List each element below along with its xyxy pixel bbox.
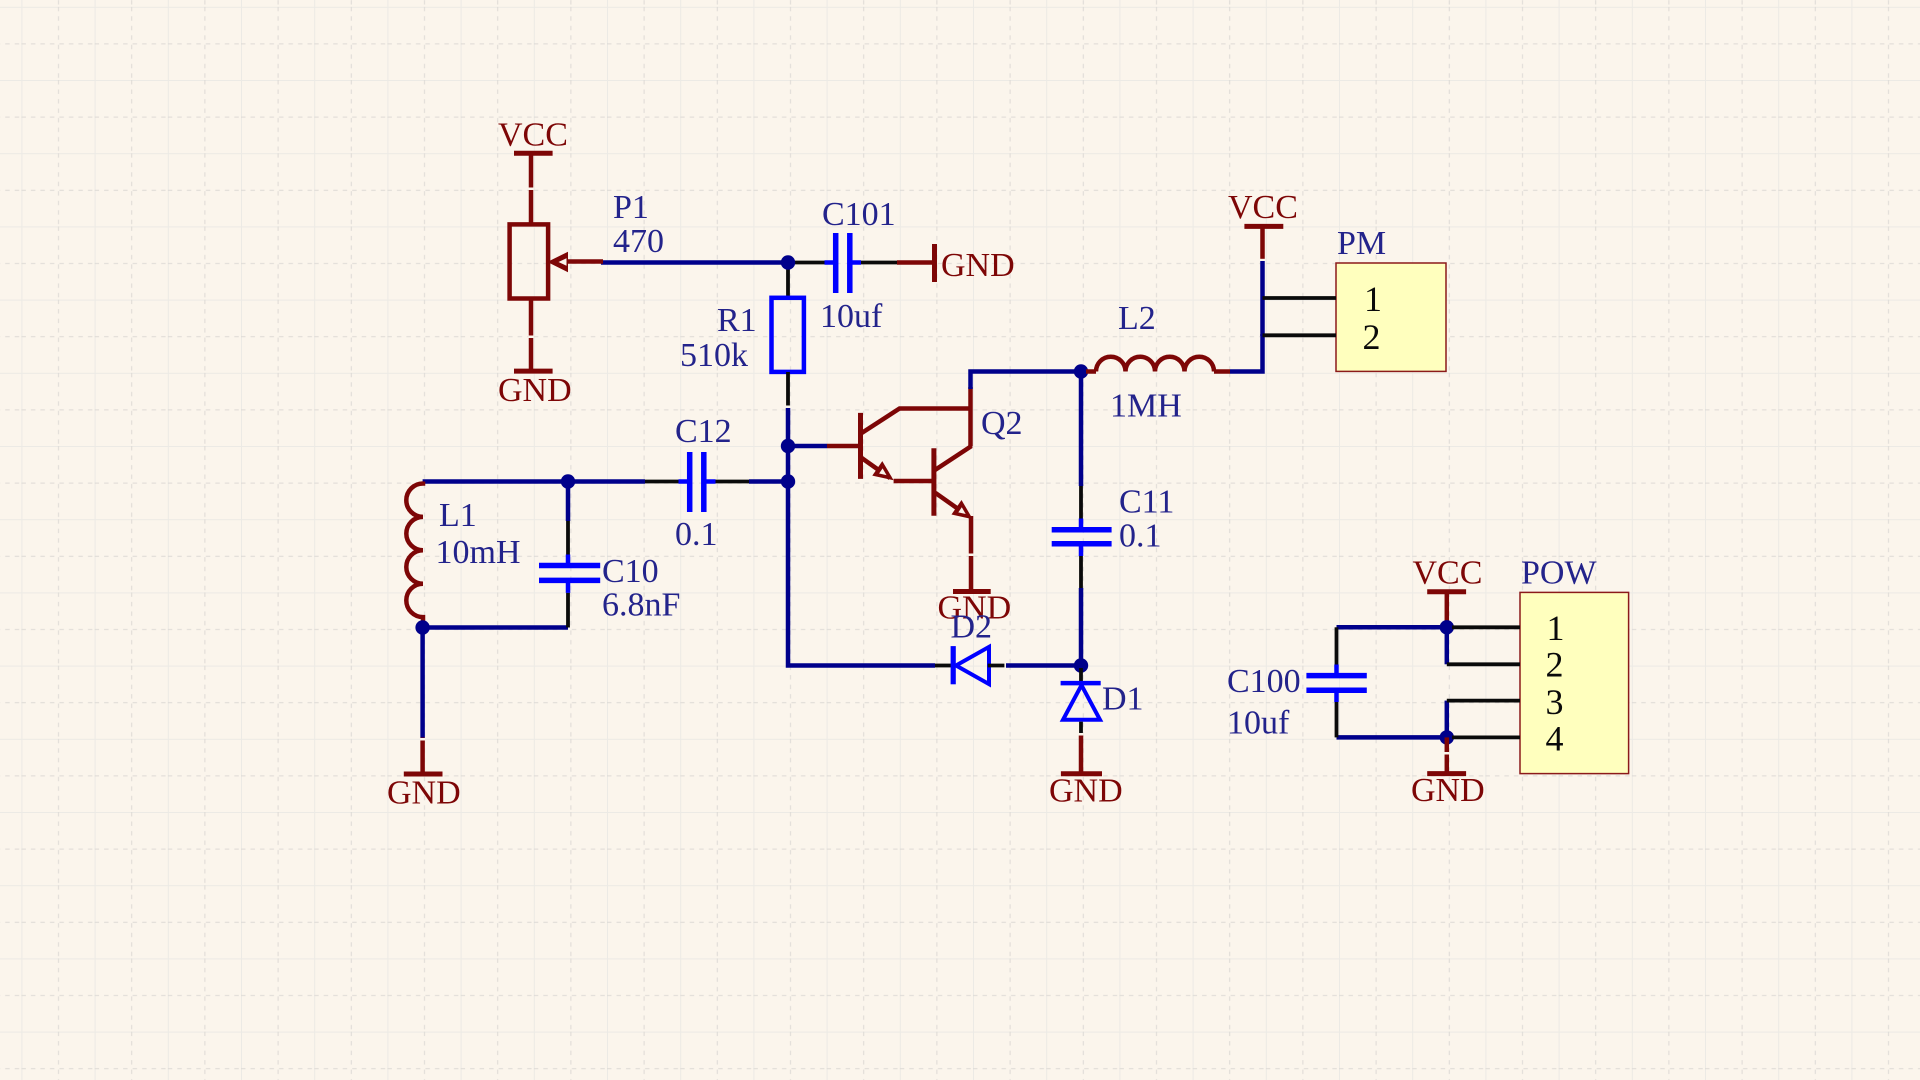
svg-text:C101: C101 <box>822 196 896 233</box>
junction at L1 bottom <box>415 620 429 634</box>
svg-text:470: 470 <box>613 223 664 260</box>
pin 3 of POW <box>1447 682 1564 722</box>
wire L2 to PM pin2 <box>1230 334 1263 372</box>
svg-text:Q2: Q2 <box>981 405 1023 442</box>
junction at C12 node <box>781 474 795 488</box>
svg-text:R1: R1 <box>717 302 757 339</box>
power port GND at D1 <box>1049 733 1123 810</box>
wire C100 bottom to GND node <box>1337 735 1447 740</box>
power port VCC at PM <box>1228 189 1298 261</box>
wire D2 to D1 node <box>1006 663 1081 668</box>
svg-text:L1: L1 <box>439 497 477 534</box>
svg-text:GND: GND <box>1049 773 1123 810</box>
svg-text:C12: C12 <box>675 413 732 450</box>
pin 2 of PM <box>1263 317 1381 357</box>
capacitor C101 <box>790 233 897 293</box>
transistor Q2 (darlington) <box>827 387 973 552</box>
junction at base node <box>781 439 795 453</box>
junction at L2/C11 node <box>1074 364 1088 378</box>
inductor L2 <box>1086 357 1230 372</box>
svg-text:6.8nF: 6.8nF <box>602 587 680 624</box>
wire main vertical to D2 <box>788 408 935 666</box>
pin 1 of PM <box>1263 279 1383 319</box>
svg-text:2: 2 <box>1363 317 1381 357</box>
wire P1 wiper to junction <box>601 260 789 265</box>
wire pin3 down to GND node <box>1445 701 1450 738</box>
svg-text:2: 2 <box>1546 645 1564 685</box>
diode D2 <box>935 646 1004 684</box>
svg-text:0.1: 0.1 <box>1119 518 1162 555</box>
capacitor C12 <box>645 452 786 512</box>
power port GND at Q2 <box>938 552 1012 627</box>
wire VCC to PM pins <box>1260 261 1265 336</box>
power port VCC at P1 <box>498 117 568 225</box>
junction at GND/C100/pin4 node <box>1440 730 1454 744</box>
power port GND at C101 (bar style) <box>897 244 1015 284</box>
svg-text:GND: GND <box>1411 772 1485 809</box>
power port GND at L1 <box>387 628 461 812</box>
connector POW <box>1520 592 1629 773</box>
svg-text:C10: C10 <box>602 553 659 590</box>
svg-text:0.1: 0.1 <box>675 516 718 553</box>
svg-text:D2: D2 <box>951 609 993 646</box>
svg-text:GND: GND <box>498 372 572 409</box>
svg-text:3: 3 <box>1546 682 1564 722</box>
wire L1 to C12 <box>423 479 645 484</box>
power port GND at P1 <box>498 299 572 410</box>
capacitor C11 <box>1052 372 1112 666</box>
svg-text:POW: POW <box>1521 555 1597 592</box>
svg-text:VCC: VCC <box>1413 555 1483 592</box>
diode D1 <box>1061 668 1101 735</box>
svg-text:1: 1 <box>1547 608 1565 648</box>
pin 2 of POW <box>1447 645 1564 685</box>
svg-text:VCC: VCC <box>498 117 568 154</box>
junction at D1/D2/C11 node <box>1074 658 1088 672</box>
svg-text:10uf: 10uf <box>1227 705 1290 742</box>
junction at P1/R1/C101 node <box>781 255 795 269</box>
power port VCC at POW <box>1413 555 1483 625</box>
wire VCC node to C100 <box>1337 625 1447 630</box>
connector PM <box>1336 263 1446 371</box>
svg-text:10mH: 10mH <box>436 534 521 571</box>
wire Q2 collector up <box>971 372 1083 390</box>
capacitor C10 <box>539 482 600 628</box>
wire L1 bottom to C10 bottom <box>423 622 568 628</box>
svg-text:GND: GND <box>941 247 1015 284</box>
svg-text:L2: L2 <box>1118 300 1156 337</box>
wire VCC junction down to pin2 <box>1445 624 1450 664</box>
svg-text:PM: PM <box>1337 225 1386 262</box>
capacitor C100 <box>1306 627 1366 737</box>
inductor L1 <box>406 482 423 623</box>
svg-text:4: 4 <box>1546 719 1564 759</box>
svg-text:C11: C11 <box>1119 484 1174 521</box>
svg-text:1: 1 <box>1364 279 1382 319</box>
junction at L1/C10 top <box>561 474 575 488</box>
pin 1 of POW <box>1452 608 1565 648</box>
svg-text:10uf: 10uf <box>820 298 883 335</box>
svg-text:D1: D1 <box>1102 681 1144 718</box>
svg-text:VCC: VCC <box>1228 189 1298 226</box>
resistor R1 <box>772 263 804 409</box>
power port GND at POW <box>1411 737 1485 809</box>
svg-text:P1: P1 <box>613 189 649 226</box>
junction at VCC/C100/pin1 node <box>1440 620 1454 634</box>
pin 4 of POW <box>1452 719 1564 759</box>
svg-text:510k: 510k <box>680 337 748 374</box>
svg-text:1MH: 1MH <box>1110 388 1182 425</box>
wire Q2 base <box>788 444 827 449</box>
svg-text:GND: GND <box>387 775 461 812</box>
potentiometer P1 <box>510 224 603 298</box>
svg-text:C100: C100 <box>1227 663 1301 700</box>
